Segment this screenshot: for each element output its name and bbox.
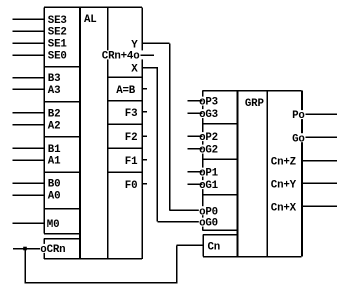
wire : F0 output stub	[142, 183, 147, 185]
wire : ALU left label column divider	[79, 7, 81, 258]
wire : ALU label group divider 2	[44, 101, 80, 103]
svg-text:oP0: oP0	[199, 206, 218, 218]
svg-text:F0: F0	[125, 180, 138, 192]
wire : X vertical drop	[156, 67, 158, 222]
svg-text:F2: F2	[125, 132, 138, 144]
pin F0 output	[125, 180, 139, 192]
svg-text:A=B: A=B	[116, 85, 136, 97]
pin A1	[48, 156, 62, 168]
svg-text:SE2: SE2	[48, 27, 67, 39]
svg-text:Cn+X: Cn+X	[271, 203, 297, 215]
pin A2	[48, 120, 62, 132]
op-amp U2 : GRP carry generator block	[203, 91, 303, 257]
pin Cn+Y output	[271, 179, 298, 191]
wire : B0 input stub	[13, 182, 45, 184]
pin oG2 with bubble	[199, 145, 225, 157]
pin CRn+4 output with bubble	[102, 50, 147, 62]
pin B2	[48, 108, 62, 120]
svg-text:B0: B0	[48, 179, 61, 191]
svg-text:Cn+Y: Cn+Y	[271, 180, 297, 192]
svg-text:Go: Go	[292, 133, 305, 145]
wire : B1 input stub	[13, 147, 45, 149]
wire : F3 output stub	[142, 111, 147, 113]
wire : oG1 stub	[188, 183, 203, 185]
pin A0	[48, 190, 62, 202]
wire : ALU label group divider 1	[44, 66, 80, 68]
wire : Y output run right	[142, 42, 170, 44]
svg-text:A2: A2	[48, 120, 61, 132]
pin F2 output	[125, 132, 139, 144]
wire : F1 box top	[108, 147, 143, 149]
svg-text:A1: A1	[48, 156, 61, 168]
svg-text:oG2: oG2	[199, 145, 218, 157]
wire : riser to Cn input	[176, 245, 178, 283]
wire : F1 output stub	[142, 159, 147, 161]
wire : CRn input	[13, 248, 40, 250]
svg-text:GRP: GRP	[245, 98, 265, 110]
wire : A=B output stub	[142, 88, 147, 90]
wire : GRP output column divider	[266, 91, 268, 257]
pin A3	[48, 85, 62, 97]
wire : F2 box top	[108, 123, 143, 125]
wire : M0 input stub	[13, 222, 45, 224]
wire : oG3 stub	[188, 112, 203, 114]
svg-text:Y: Y	[131, 39, 138, 51]
svg-text:oP1: oP1	[199, 168, 219, 180]
svg-text:A3: A3	[48, 85, 61, 97]
wire : F0 box top	[108, 171, 143, 173]
op-amp U1 : ALU block outline	[44, 7, 142, 258]
wire : X output run right	[142, 67, 157, 69]
wire : Y into oP0	[170, 209, 203, 211]
pin SE3	[48, 15, 68, 27]
wire : Cn box	[203, 235, 238, 257]
wire : F3 box top	[108, 100, 143, 102]
pin Cn+X output	[271, 202, 298, 214]
wire : Cn+Z output	[302, 160, 338, 162]
wire : CRn+4 stub	[141, 54, 154, 56]
svg-text:oG0: oG0	[199, 218, 218, 230]
wire : ALU CRn box top	[44, 238, 80, 240]
wire : A1 input stub	[13, 159, 45, 161]
wire : F2 output stub	[142, 135, 147, 137]
wire : GRP label box bottom	[203, 229, 238, 231]
svg-text:F3: F3	[125, 108, 138, 120]
svg-text:Po: Po	[292, 110, 305, 122]
wire : GRP label divider 3	[203, 194, 238, 196]
wire : into Cn pin	[177, 244, 204, 246]
svg-text:X: X	[131, 63, 138, 75]
pin X output	[131, 63, 138, 75]
wire : ALU label group divider 3	[44, 136, 80, 138]
pin B3	[48, 73, 62, 85]
wire : Po output	[306, 113, 338, 115]
wire : oP2 stub	[188, 135, 203, 137]
pin oG0 with bubble	[199, 218, 225, 230]
pin oG3 with bubble	[199, 109, 225, 121]
label AL	[84, 14, 97, 26]
svg-text:oP2: oP2	[199, 132, 218, 144]
wire : Cn+Y output	[302, 182, 338, 184]
wire : A2 input stub	[13, 124, 45, 126]
svg-text:oCRn: oCRn	[40, 244, 65, 256]
pin Cn+Z output	[271, 157, 298, 169]
wire : Cn+X output	[302, 205, 338, 207]
wire : ALU output column left edge	[107, 7, 109, 258]
wire : GRP label divider 1	[203, 123, 238, 125]
wire : oP3 stub	[188, 100, 203, 102]
pin F1 output	[125, 156, 139, 168]
wire : SE2 input stub	[13, 30, 45, 32]
pin B1	[48, 144, 62, 156]
pin SE2	[48, 27, 68, 39]
pin SE0	[48, 50, 68, 62]
wire : A3 input stub	[13, 88, 45, 90]
svg-text:B2: B2	[48, 108, 61, 120]
wire : oP1 stub	[188, 171, 203, 173]
wire : bottom run to Cn	[25, 282, 177, 284]
svg-text:B1: B1	[48, 144, 61, 156]
pin Cn	[207, 241, 221, 253]
svg-text:CRn+4o: CRn+4o	[102, 51, 140, 63]
wire : oG2 stub	[188, 148, 203, 150]
svg-text:M0: M0	[47, 219, 60, 231]
wire : GRP label column right edge	[237, 91, 239, 257]
svg-text:A0: A0	[48, 191, 61, 203]
pin F3 output	[125, 108, 139, 120]
wire : ALU label group divider 5	[44, 208, 80, 210]
pin SE1	[48, 39, 68, 51]
wire : SE1 input stub	[13, 42, 45, 44]
pin oP0 with bubble	[199, 206, 225, 218]
svg-text:SE1: SE1	[48, 39, 68, 51]
svg-text:B3: B3	[48, 73, 61, 85]
wire : B3 input stub	[13, 77, 45, 79]
pin Y output	[131, 39, 138, 51]
node : CRn junction dot	[23, 247, 27, 251]
wire : ALU label group divider 4	[44, 171, 80, 173]
label GRP	[245, 98, 265, 110]
svg-text:AL: AL	[84, 14, 97, 26]
svg-text:oG1: oG1	[199, 180, 219, 192]
pin oCRn with inversion bubble	[40, 244, 66, 256]
svg-text:oG3: oG3	[199, 109, 218, 121]
pin B0	[48, 178, 62, 190]
svg-text:oP3: oP3	[199, 97, 218, 109]
pin oP1 with bubble	[199, 168, 225, 180]
pin oG1 with bubble	[199, 180, 225, 192]
pin Go output with bubble	[292, 133, 305, 145]
svg-text:SE0: SE0	[48, 51, 67, 63]
svg-text:SE3: SE3	[48, 15, 67, 27]
svg-text:Cn+Z: Cn+Z	[271, 157, 296, 169]
wire : SE0 input stub	[13, 54, 45, 56]
pin oP3 with bubble	[199, 97, 225, 109]
svg-text:Cn: Cn	[208, 241, 221, 253]
wire : A=B box top	[108, 76, 143, 78]
pin oP2 with bubble	[199, 132, 225, 144]
wire : ALU label group divider 6	[44, 233, 80, 235]
pin Po output with bubble	[292, 110, 305, 122]
svg-text:F1: F1	[125, 156, 138, 168]
wire : SE3 input stub	[13, 18, 45, 20]
wire : X into oG0	[157, 221, 202, 223]
pin M0	[46, 219, 61, 231]
wire : A0 input stub	[13, 194, 45, 196]
wire : GRP label divider 2	[203, 158, 238, 160]
pin A=B output	[116, 85, 136, 97]
wire : B2 input stub	[13, 112, 45, 114]
wire : CRn feed down	[24, 249, 26, 284]
wire : Y vertical drop	[169, 43, 171, 210]
wire : Go output	[306, 136, 338, 138]
